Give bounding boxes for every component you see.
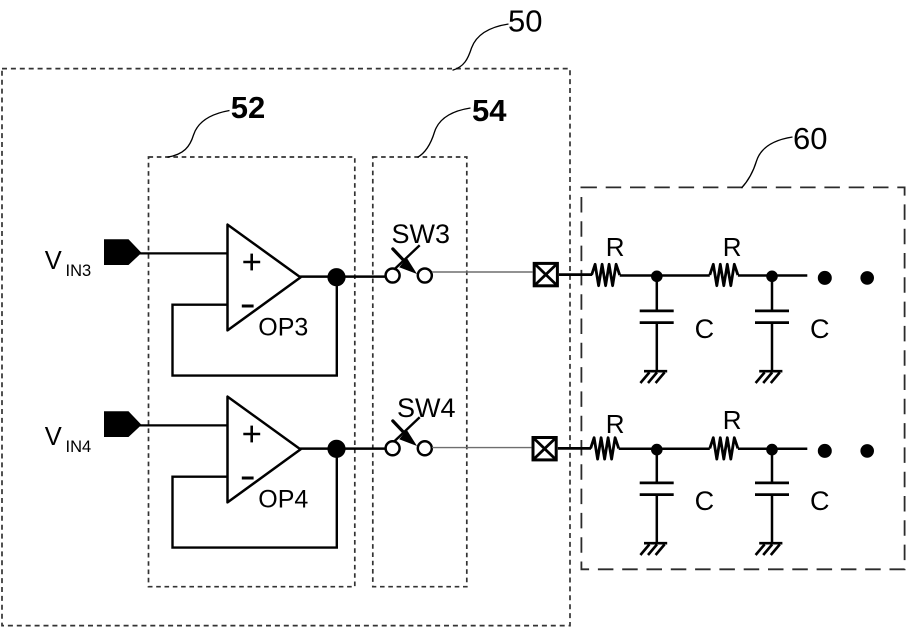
- ellipsis dots row1: [818, 271, 832, 285]
- wire VIN3 to OP3: [139, 252, 228, 254]
- svg-text:SW4: SW4: [397, 393, 456, 423]
- svg-text:60: 60: [793, 121, 827, 156]
- svg-text:C: C: [695, 486, 715, 516]
- op-amp OP4: [228, 397, 309, 514]
- switch SW4: [386, 417, 432, 455]
- wire R to node row1: [620, 274, 710, 277]
- junction dot OP3 output: [327, 268, 345, 286]
- ellipsis dots row2: [818, 444, 832, 458]
- bonding pad (crossed box) row2: [533, 438, 556, 460]
- resistor R row1 second: [710, 264, 738, 285]
- svg-text:OP4: OP4: [258, 486, 308, 514]
- input pad VIN4: [104, 411, 142, 437]
- wire pad to R row2: [558, 447, 591, 450]
- leader line 50: [453, 24, 509, 70]
- junction node row1 second: [766, 271, 778, 283]
- resistor R row1 first: [592, 264, 620, 285]
- leader line 60: [742, 137, 793, 188]
- dashed block 60: [581, 187, 904, 569]
- svg-text:R: R: [606, 409, 625, 439]
- dashed block 54: [373, 157, 467, 587]
- svg-text:C: C: [810, 314, 830, 344]
- capacitor C row1 second: [755, 276, 789, 371]
- wire R to node row2: [619, 448, 710, 451]
- svg-text:R: R: [606, 232, 625, 262]
- capacitor C row1 first: [640, 276, 674, 371]
- svg-text:OP3: OP3: [258, 314, 308, 342]
- svg-text:C: C: [810, 486, 830, 516]
- svg-text:SW3: SW3: [392, 219, 451, 249]
- svg-text:V: V: [45, 423, 62, 451]
- resistor R row2 first: [591, 438, 619, 459]
- svg-text:52: 52: [231, 90, 265, 125]
- svg-text:54: 54: [472, 93, 507, 128]
- svg-text:50: 50: [508, 3, 542, 38]
- dashed block 50: [2, 69, 570, 626]
- wire R2 to end row2: [738, 448, 807, 451]
- bonding pad (crossed box) row1: [534, 263, 557, 285]
- svg-text:IN4: IN4: [66, 438, 92, 456]
- wire OP3 output: [300, 275, 386, 278]
- resistor R row2 second: [710, 438, 738, 459]
- ground row1 first: [640, 371, 667, 383]
- dashed block 52: [149, 157, 355, 587]
- wire OP4 output: [300, 447, 386, 450]
- junction node row2 first: [651, 444, 663, 456]
- ground row2 second: [756, 543, 783, 555]
- svg-text:V: V: [45, 247, 62, 275]
- junction node row1 first: [651, 271, 663, 283]
- ground row2 first: [640, 543, 667, 555]
- input pad VIN3: [104, 239, 142, 265]
- wire VIN4 to OP4: [139, 424, 228, 426]
- op-amp OP3: [228, 225, 309, 342]
- feedback wire OP3: [173, 277, 337, 376]
- wire R2 to end row1: [738, 274, 807, 277]
- junction dot OP4 output: [327, 440, 345, 458]
- leader line 52: [168, 111, 230, 158]
- leader line 54: [418, 108, 471, 157]
- svg-text:C: C: [695, 314, 715, 344]
- wire pad to R row1: [559, 273, 592, 276]
- switch SW3: [386, 245, 432, 282]
- ground row1 second: [756, 371, 783, 383]
- capacitor C row2 first: [640, 449, 674, 543]
- svg-text:R: R: [723, 405, 742, 435]
- junction node row2 second: [766, 444, 778, 456]
- capacitor C row2 second: [755, 449, 789, 543]
- svg-text:R: R: [723, 232, 742, 262]
- feedback wire OP4: [173, 449, 337, 548]
- wire SW4 to pad (thin): [432, 447, 531, 449]
- svg-text:IN3: IN3: [66, 262, 92, 280]
- wire SW3 to pad (thin): [432, 271, 533, 273]
